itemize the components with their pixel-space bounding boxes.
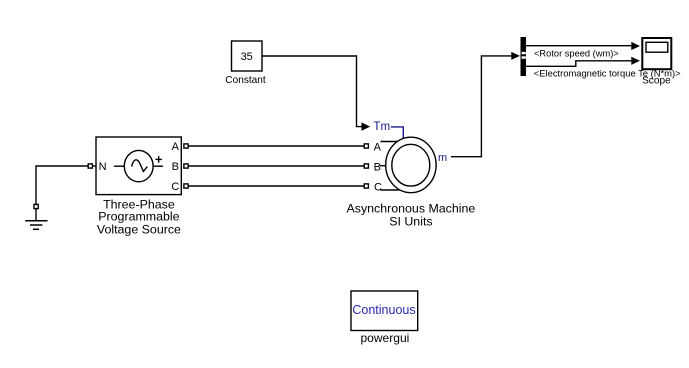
machine icon: C lead [380, 189, 400, 191]
wire A: source to machine [188, 145, 364, 147]
svg-text:powergui: powergui [360, 331, 409, 345]
port marker A (right) [184, 144, 188, 148]
block: Three-Phase Programmable Voltage Source [96, 137, 181, 195]
machine port marker C [364, 184, 368, 188]
label: Asynchronous Machine SI Units [347, 201, 476, 228]
svg-text:<Electromagnetic torque Te (N*: <Electromagnetic torque Te (N*m)> [534, 68, 681, 79]
wire: m output to bus selector [451, 56, 512, 157]
svg-text:A: A [374, 141, 382, 153]
machine port marker A [364, 144, 368, 148]
arrowhead into bus selector [511, 52, 520, 60]
block: Constant (35) [232, 41, 263, 71]
svg-text:C: C [374, 181, 382, 193]
label: Three-Phase Programmable Voltage Source [97, 197, 181, 236]
block: powergui [351, 291, 418, 331]
machine icon: A lead [381, 141, 398, 143]
svg-text:SI Units: SI Units [389, 215, 432, 229]
wire C: source to machine [188, 185, 364, 187]
svg-text:B: B [374, 161, 381, 173]
wire: rotor speed to scope input 1 [526, 45, 632, 47]
wire: electromagnetic torque to scope input 2 [526, 61, 632, 67]
svg-text:N: N [99, 161, 107, 173]
ground wire from source N port [36, 166, 91, 220]
svg-text:35: 35 [241, 51, 253, 63]
svg-text:Programmable: Programmable [98, 210, 179, 224]
svg-text:Continuous: Continuous [352, 303, 415, 317]
machine icon: outer circle [386, 137, 436, 193]
svg-text:<Rotor speed (wm)>: <Rotor speed (wm)> [534, 49, 619, 59]
port marker C (right) [184, 184, 188, 188]
machine icon: B lead [380, 165, 386, 167]
svg-text:Constant: Constant [225, 75, 266, 86]
ground symbol [25, 221, 47, 230]
source icon: circle [124, 150, 153, 181]
source icon: plus sign [155, 156, 162, 163]
port marker B (right) [184, 164, 188, 168]
port marker N (left) [88, 164, 92, 168]
wire: Constant to Tm [262, 56, 362, 127]
machine icon: inner circle [392, 144, 430, 186]
arrowhead into Tm [362, 122, 371, 130]
machine icon: Tm lead (blue) [391, 127, 403, 138]
block: Scope [642, 38, 671, 69]
svg-text:A: A [172, 141, 180, 153]
svg-text:C: C [171, 181, 179, 193]
svg-text:Voltage Source: Voltage Source [97, 223, 181, 237]
svg-text:Tm: Tm [373, 120, 390, 133]
source icon: sine wave [132, 160, 148, 172]
source icon: right lead [154, 165, 163, 167]
machine port marker B [364, 164, 368, 168]
wire B: source to machine [188, 165, 364, 167]
bus selector bar [521, 37, 527, 76]
scope screen [646, 42, 668, 52]
svg-text:Asynchronous Machine: Asynchronous Machine [347, 201, 476, 215]
ground port marker [34, 204, 38, 208]
svg-text:m: m [438, 152, 447, 164]
svg-text:B: B [172, 161, 179, 173]
source icon: left lead [114, 165, 124, 167]
